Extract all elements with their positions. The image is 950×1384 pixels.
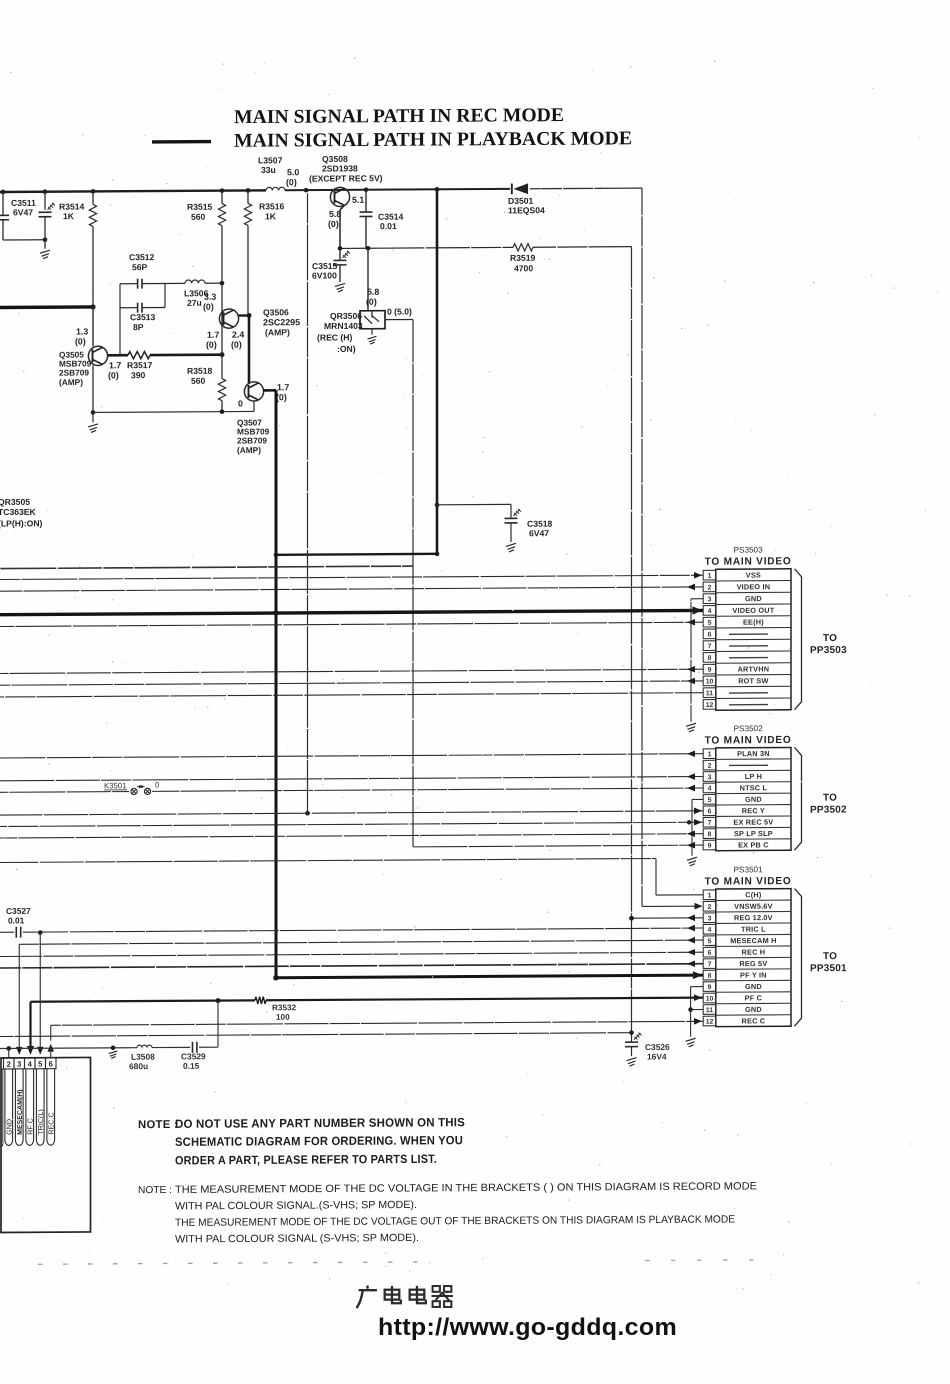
svg-text:REC Y: REC Y (742, 806, 765, 815)
svg-text:(0): (0) (75, 336, 86, 346)
svg-text:5.8: 5.8 (329, 209, 341, 219)
svg-text:RF C: RF C (25, 1118, 34, 1135)
svg-text:LP H: LP H (745, 772, 762, 781)
svg-text:2: 2 (7, 1060, 11, 1069)
svg-text:GND: GND (745, 982, 762, 991)
svg-text:PP3501: PP3501 (810, 963, 847, 974)
svg-text:C3512: C3512 (129, 252, 155, 262)
svg-text:VIDEO IN: VIDEO IN (737, 582, 771, 591)
svg-text:REC.C: REC.C (46, 1112, 55, 1134)
svg-text:1: 1 (708, 573, 712, 580)
svg-text:K3501: K3501 (104, 781, 127, 790)
svg-text:ROT SW: ROT SW (738, 676, 768, 685)
svg-text:4: 4 (708, 786, 712, 793)
svg-text:(0): (0) (286, 177, 297, 187)
svg-text:(0): (0) (206, 340, 217, 350)
svg-text:R3515: R3515 (187, 202, 213, 212)
svg-text:MAIN SIGNAL PATH IN REC MODE: MAIN SIGNAL PATH IN REC MODE (234, 105, 564, 128)
svg-text:TO: TO (823, 633, 837, 644)
svg-text:1K: 1K (63, 211, 75, 221)
svg-text:3: 3 (708, 596, 712, 603)
svg-text:GND: GND (745, 1005, 762, 1014)
svg-text:ARTVHN: ARTVHN (738, 664, 770, 673)
svg-text:R3519: R3519 (510, 253, 536, 263)
svg-text:0.15: 0.15 (183, 1061, 200, 1071)
svg-text:7: 7 (708, 820, 712, 827)
svg-text:8P: 8P (133, 322, 144, 332)
svg-text:R3516: R3516 (259, 201, 285, 211)
svg-text:EX PB C: EX PB C (738, 840, 769, 849)
svg-text:6: 6 (708, 808, 712, 815)
svg-text:PS3501: PS3501 (734, 865, 764, 874)
svg-text:5.0: 5.0 (287, 167, 299, 177)
svg-text:2: 2 (708, 584, 712, 591)
svg-text:TO MAIN VIDEO: TO MAIN VIDEO (705, 556, 792, 568)
svg-text:GND: GND (745, 795, 762, 804)
svg-text:ORDER A PART, PLEASE REFER TO: ORDER A PART, PLEASE REFER TO PARTS LIST… (175, 1152, 437, 1168)
svg-text:C3513: C3513 (130, 312, 156, 322)
svg-text:6V47: 6V47 (529, 528, 549, 538)
svg-text:11EQS04: 11EQS04 (508, 205, 545, 215)
svg-text:http://www.go-gddq.com: http://www.go-gddq.com (378, 1314, 677, 1341)
svg-text:1: 1 (708, 892, 712, 899)
svg-text:2: 2 (708, 904, 712, 911)
svg-text:1: 1 (708, 751, 712, 758)
svg-text:SCHEMATIC DIAGRAM FOR ORDERING: SCHEMATIC DIAGRAM FOR ORDERING. WHEN YOU (175, 1133, 463, 1149)
svg-text:NOTE :: NOTE : (138, 1185, 172, 1196)
svg-text:7: 7 (708, 961, 712, 968)
svg-text:VIDEO OUT: VIDEO OUT (732, 606, 774, 615)
svg-text:1K: 1K (265, 211, 277, 221)
svg-text:5: 5 (708, 797, 712, 804)
svg-text:EE(H): EE(H) (743, 618, 764, 627)
svg-text:QR3506: QR3506 (330, 311, 362, 321)
svg-text::ON): :ON) (337, 344, 356, 354)
svg-text:6V47: 6V47 (13, 207, 33, 217)
svg-text:0: 0 (238, 399, 243, 409)
svg-text:(0): (0) (276, 392, 287, 402)
svg-text:WITH PAL COLOUR SIGNAL (S-VHS;: WITH PAL COLOUR SIGNAL (S-VHS; SP MODE). (175, 1232, 419, 1245)
svg-text:Q3506: Q3506 (263, 307, 289, 317)
svg-text:R3518: R3518 (187, 366, 213, 376)
svg-text:PS3502: PS3502 (734, 724, 764, 733)
svg-text:5.8: 5.8 (367, 287, 379, 297)
svg-text:33u: 33u (261, 165, 276, 175)
svg-text:TRIC(L): TRIC(L) (36, 1109, 45, 1135)
svg-text:TRIC L: TRIC L (741, 925, 766, 934)
svg-text:0: 0 (155, 781, 160, 790)
svg-text:TO MAIN VIDEO: TO MAIN VIDEO (705, 735, 792, 747)
svg-text:TO MAIN VIDEO: TO MAIN VIDEO (705, 876, 792, 888)
svg-text:3: 3 (708, 774, 712, 781)
svg-text:11: 11 (706, 690, 713, 697)
svg-text:GND: GND (745, 594, 762, 603)
svg-text:3: 3 (708, 915, 712, 922)
svg-text:MRN1403: MRN1403 (324, 321, 363, 331)
svg-text:(0): (0) (328, 219, 339, 229)
svg-text:VSS: VSS (746, 571, 761, 580)
svg-text:PF C: PF C (745, 993, 763, 1002)
svg-text:6: 6 (708, 950, 712, 957)
svg-text:PLAN 3N: PLAN 3N (737, 749, 770, 758)
svg-text:(AMP): (AMP) (265, 327, 290, 337)
svg-text:REG 12.0V: REG 12.0V (734, 913, 773, 922)
svg-text:REC H: REC H (742, 948, 766, 957)
svg-text:9: 9 (708, 667, 712, 674)
svg-text:0.01: 0.01 (380, 221, 397, 231)
svg-text:2.4: 2.4 (232, 330, 244, 340)
svg-text:DO NOT USE ANY PART NUMBER SHO: DO NOT USE ANY PART NUMBER SHOWN ON THIS (175, 1115, 465, 1131)
svg-text:(0): (0) (366, 297, 377, 307)
svg-text:R3517: R3517 (127, 360, 153, 370)
svg-text:(EXCEPT REC 5V): (EXCEPT REC 5V) (309, 173, 383, 183)
svg-text:MAIN SIGNAL PATH IN PLAYBACK M: MAIN SIGNAL PATH IN PLAYBACK MODE (234, 128, 632, 151)
svg-text:1.7: 1.7 (207, 330, 219, 340)
svg-text:3: 3 (17, 1060, 21, 1069)
svg-text:REC C: REC C (742, 1016, 766, 1025)
svg-text:1.7: 1.7 (109, 360, 121, 370)
svg-text:5.1: 5.1 (352, 195, 364, 205)
svg-text:10: 10 (706, 996, 714, 1003)
svg-text:390: 390 (131, 370, 146, 380)
svg-text:6: 6 (49, 1059, 53, 1068)
svg-text:MESECAM(H): MESECAM(H) (17, 1089, 24, 1135)
svg-text:TO: TO (823, 951, 837, 962)
svg-text:3.3: 3.3 (204, 292, 216, 302)
svg-text:12: 12 (706, 702, 714, 709)
svg-text:VNSW5.6V: VNSW5.6V (734, 902, 773, 911)
svg-text:6: 6 (708, 631, 712, 638)
svg-text:NOTE :: NOTE : (138, 1119, 178, 1131)
svg-text:12: 12 (706, 1019, 714, 1026)
svg-text:10: 10 (706, 678, 714, 685)
svg-text:8: 8 (708, 655, 712, 662)
svg-text:0.01: 0.01 (8, 915, 25, 925)
svg-text:1.7: 1.7 (277, 382, 289, 392)
svg-text:(REC (H): (REC (H) (317, 332, 352, 342)
svg-text:PP3503: PP3503 (810, 645, 847, 656)
svg-text:WITH PAL COLOUR SIGNAL.(S-VHS;: WITH PAL COLOUR SIGNAL.(S-VHS; SP MODE). (175, 1199, 417, 1212)
svg-text:TC363EK: TC363EK (0, 507, 37, 517)
svg-text:5: 5 (708, 938, 712, 945)
svg-text:(0): (0) (203, 302, 214, 312)
svg-text:SP LP SLP: SP LP SLP (734, 829, 773, 838)
svg-text:C(H): C(H) (745, 890, 762, 899)
svg-text:0 (5.0): 0 (5.0) (387, 306, 412, 316)
svg-text:R3532: R3532 (272, 1003, 297, 1012)
svg-text:4: 4 (708, 608, 712, 615)
svg-text:MESECAM H: MESECAM H (730, 936, 776, 945)
svg-text:8: 8 (708, 831, 712, 838)
svg-text:5: 5 (708, 620, 712, 627)
svg-text:8: 8 (708, 973, 712, 980)
svg-text:2SC2295: 2SC2295 (263, 317, 300, 327)
svg-text:(AMP): (AMP) (59, 377, 83, 387)
svg-text:NTSC L: NTSC L (740, 783, 768, 792)
svg-text:7: 7 (708, 643, 712, 650)
svg-text:2SD1938: 2SD1938 (322, 163, 358, 173)
svg-text:6V100: 6V100 (312, 270, 337, 280)
svg-text:680u: 680u (129, 1061, 148, 1071)
svg-text:560: 560 (191, 212, 206, 222)
svg-text:4700: 4700 (514, 263, 533, 273)
svg-text:56P: 56P (132, 262, 148, 272)
svg-text:(0): (0) (231, 340, 242, 350)
svg-text:560: 560 (191, 376, 206, 386)
svg-text:QR3505: QR3505 (0, 497, 30, 507)
svg-text:PF Y IN: PF Y IN (740, 970, 767, 979)
svg-text:(AMP): (AMP) (237, 445, 261, 455)
svg-text:16V4: 16V4 (647, 1051, 667, 1061)
svg-text:EX REC 5V: EX REC 5V (733, 818, 773, 827)
svg-text:11: 11 (706, 1007, 713, 1014)
svg-text:100: 100 (276, 1013, 290, 1022)
svg-text:PP3502: PP3502 (810, 805, 847, 816)
svg-text:27u: 27u (187, 298, 202, 308)
svg-text:9: 9 (708, 984, 712, 991)
svg-text:PS3503: PS3503 (734, 545, 764, 554)
svg-text:TO: TO (823, 793, 837, 804)
svg-text:4: 4 (708, 927, 712, 934)
svg-text:(0): (0) (108, 370, 119, 380)
svg-text:1.3: 1.3 (76, 326, 88, 336)
svg-text:2: 2 (708, 763, 712, 770)
svg-text:(LP(H):ON): (LP(H):ON) (0, 518, 43, 528)
svg-text:9: 9 (708, 843, 712, 850)
